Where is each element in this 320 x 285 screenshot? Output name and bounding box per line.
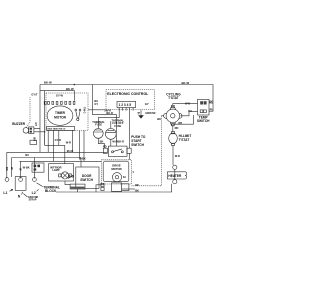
svg-text:BK-R: BK-R (106, 111, 113, 115)
svg-text:FUSE: FUSE (95, 123, 102, 127)
svg-text:T'STAT: T'STAT (168, 96, 179, 100)
svg-text:MOTOR: MOTOR (111, 167, 121, 171)
svg-text:BK-W: BK-W (182, 81, 190, 85)
svg-text:W-R: W-R (175, 154, 180, 158)
svg-text:PU: PU (210, 107, 214, 111)
svg-text:GY-R: GY-R (55, 138, 61, 142)
svg-text:L2: L2 (32, 191, 36, 195)
svg-text:BK: BK (157, 117, 161, 121)
svg-text:STRAP: STRAP (29, 198, 37, 201)
svg-text:GY: GY (34, 122, 38, 126)
svg-text:BU-R: BU-R (67, 149, 74, 153)
svg-text:TM-C: TM-C (83, 107, 87, 114)
svg-text:RD: RD (175, 126, 179, 130)
svg-text:GY: GY (94, 102, 98, 106)
svg-text:1 2 3 4 5: 1 2 3 4 5 (119, 103, 132, 107)
svg-text:T'STAT: T'STAT (179, 138, 190, 142)
svg-text:BK-W: BK-W (44, 80, 52, 84)
svg-text:SWITCH: SWITCH (197, 119, 210, 123)
svg-text:6A: 6A (123, 176, 126, 179)
svg-text:LAMP: LAMP (52, 168, 60, 172)
svg-text:L1: L1 (3, 191, 7, 195)
svg-text:HEATER: HEATER (168, 174, 182, 178)
svg-text:BK: BK (135, 183, 139, 187)
svg-text:GROUND: GROUND (145, 113, 156, 115)
svg-text:PU: PU (188, 109, 192, 113)
svg-text:RD: RD (178, 121, 182, 125)
svg-text:W-BK: W-BK (23, 165, 30, 169)
svg-text:BU: BU (33, 137, 37, 141)
svg-text:RD: RD (103, 144, 107, 148)
svg-text:GY-W: GY-W (56, 94, 63, 98)
svg-text:5W4 1BW2 R4 C6: 5W4 1BW2 R4 C6 (47, 128, 66, 131)
svg-text:BU: BU (25, 153, 29, 157)
svg-text:BK-W: BK-W (66, 87, 74, 91)
svg-text:BK-R: BK-R (118, 139, 125, 143)
svg-text:TIMER: TIMER (55, 111, 66, 115)
svg-text:W-R: W-R (66, 141, 71, 145)
svg-text:BK: BK (100, 140, 104, 144)
svg-text:MOTOR: MOTOR (54, 116, 67, 120)
svg-text:BLOCK: BLOCK (45, 189, 57, 193)
svg-text:SWITCH: SWITCH (131, 143, 144, 147)
svg-text:FUSE: FUSE (114, 124, 121, 128)
svg-text:W-B: W-B (185, 101, 190, 105)
svg-text:ELECTRONIC CONTROL: ELECTRONIC CONTROL (107, 92, 149, 96)
svg-text:SWITCH: SWITCH (80, 178, 93, 182)
svg-text:GY/T: GY/T (31, 92, 37, 96)
svg-text:GY: GY (145, 102, 149, 106)
svg-text:BK: BK (209, 99, 213, 103)
svg-text:BK: BK (135, 188, 139, 192)
svg-text:BUZZER: BUZZER (12, 122, 26, 126)
